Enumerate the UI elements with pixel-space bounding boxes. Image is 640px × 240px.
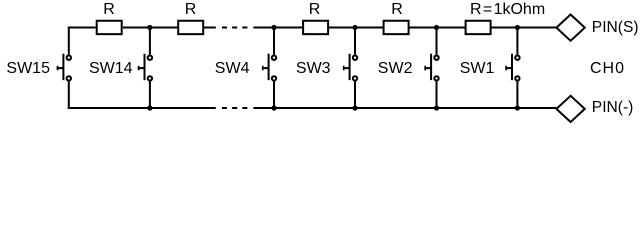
svg-text:R: R <box>309 1 321 18</box>
svg-text:SW1: SW1 <box>460 60 495 77</box>
svg-text:R: R <box>391 1 403 18</box>
svg-text:R: R <box>185 1 197 18</box>
svg-text:SW4: SW4 <box>215 60 250 77</box>
svg-text:SW15: SW15 <box>6 60 50 77</box>
svg-text:R = 1kOhm: R = 1kOhm <box>470 1 545 18</box>
svg-text:CH0: CH0 <box>590 60 625 77</box>
svg-text:SW14: SW14 <box>89 60 133 77</box>
svg-text:R: R <box>103 1 115 18</box>
svg-text:PIN(S): PIN(S) <box>592 19 639 36</box>
svg-text:SW2: SW2 <box>378 60 413 77</box>
svg-text:SW3: SW3 <box>296 60 331 77</box>
svg-text:PIN(-): PIN(-) <box>592 99 634 116</box>
